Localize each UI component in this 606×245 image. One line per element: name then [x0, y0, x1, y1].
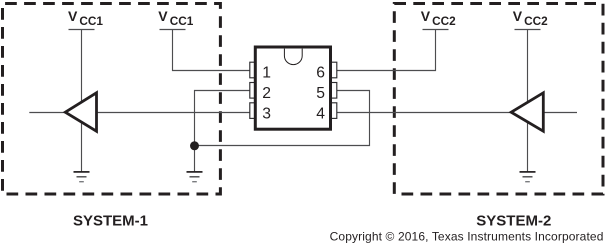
wire pin 2 to ground node [195, 91, 251, 172]
svg-text:V: V [421, 8, 431, 24]
svg-text:V: V [68, 8, 78, 24]
Vcc2 supply #1 rail bar [423, 29, 449, 31]
svg-text:5: 5 [316, 85, 325, 102]
isolator IC body [255, 47, 330, 129]
svg-text:CC2: CC2 [524, 14, 548, 28]
wire ground node to pin 5 [195, 91, 370, 146]
wire buffer A2 output stub [544, 112, 577, 114]
pin 1 box [250, 62, 256, 78]
svg-text:SYSTEM-2: SYSTEM-2 [476, 213, 551, 230]
svg-text:3: 3 [262, 105, 271, 122]
ground system-2 [520, 172, 536, 182]
pin 2 box [250, 83, 256, 99]
svg-text:CC2: CC2 [432, 14, 456, 28]
svg-text:CC1: CC1 [170, 14, 194, 28]
dashed box SYSTEM-1 [3, 4, 221, 195]
IC pin-1 notch [284, 49, 302, 65]
pin 3 box [250, 103, 256, 119]
wire Vcc1 #1 vertical to ground [81, 30, 83, 172]
svg-text:4: 4 [316, 105, 325, 122]
svg-text:CC1: CC1 [79, 14, 103, 28]
svg-text:1: 1 [262, 65, 271, 82]
svg-text:V: V [513, 8, 523, 24]
wire Vcc1 #2 to pin 1 [173, 30, 251, 71]
buffer A2 (system-2) [511, 93, 543, 131]
wire pin 4 to buffer A2 [337, 112, 512, 114]
junction dot node [190, 141, 199, 150]
Vcc1 supply #2 rail bar [160, 29, 186, 31]
ground system-1 [74, 172, 90, 182]
svg-text:6: 6 [316, 65, 325, 82]
svg-text:SYSTEM-1: SYSTEM-1 [73, 213, 148, 230]
wire Vcc2 #1 to pin 6 [337, 30, 436, 71]
pin 4 box [331, 103, 337, 119]
Vcc2 supply #2 rail bar [515, 29, 541, 31]
wire system-1 input stub [29, 112, 65, 114]
svg-text:2: 2 [262, 85, 271, 102]
svg-text:V: V [158, 8, 168, 24]
wire Vcc2 #2 vertical to ground [527, 30, 529, 172]
Vcc1 supply #1 rail bar [69, 29, 95, 31]
ground center node [187, 172, 203, 182]
dashed box SYSTEM-2 [394, 4, 603, 195]
svg-text:Copyright © 2016, Texas Instru: Copyright © 2016, Texas Instruments Inco… [330, 229, 604, 243]
wire buffer A1 output to pin 3 [97, 112, 250, 114]
buffer A1 (system-1) [65, 93, 96, 131]
pin 6 box [331, 62, 337, 78]
pin 5 box [331, 83, 337, 99]
